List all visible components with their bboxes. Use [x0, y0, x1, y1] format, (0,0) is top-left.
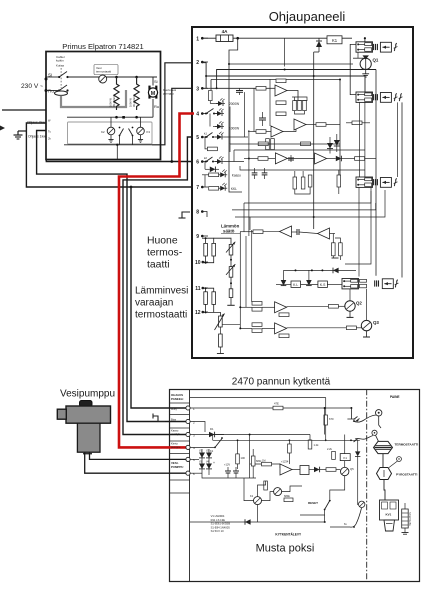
second crossing wire [355, 436, 373, 440]
connector bracket at boiler t2 [153, 416, 165, 422]
transistor Q3 [361, 320, 371, 330]
svg-text:D1: D1 [210, 427, 214, 431]
svg-text:Si: Si [154, 79, 158, 84]
wire to pyrostat [382, 454, 384, 468]
op-amp U5 (left) [280, 226, 292, 237]
wire to KL KS [301, 283, 318, 285]
LED t4 [214, 113, 217, 115]
control panel box frame [192, 27, 413, 358]
svg-text:k1: k1 [204, 132, 207, 136]
svg-text:V1 LM2904: V1 LM2904 [211, 514, 225, 518]
wire t4 down [209, 114, 211, 127]
logic box [300, 466, 309, 475]
LED t5 [213, 136, 217, 138]
wire fuse to relay1 [233, 37, 352, 39]
resistor row mid b [301, 142, 311, 146]
op-amp U9 [294, 119, 306, 130]
wire transistor down [330, 476, 345, 490]
svg-text:KKL: KKL [231, 187, 237, 191]
relay block 1 [356, 42, 373, 52]
wire switch drops [119, 136, 121, 145]
smoothing cap 1 [227, 467, 229, 471]
svg-text:11: 11 [195, 286, 201, 292]
wires drivers [262, 492, 274, 501]
svg-text:8: 8 [196, 210, 199, 216]
resistor U2 in [256, 130, 266, 134]
LED t7a [218, 170, 227, 178]
svg-text:Kutiaa: Kutiaa [56, 64, 64, 68]
wire t4 [190, 446, 215, 448]
smoothing cap 2 [235, 467, 237, 471]
wire t1 to fuse [202, 37, 216, 39]
transistor Q2 [345, 301, 355, 311]
resistor bank R12 [303, 101, 307, 111]
resistor t5 [207, 147, 217, 151]
gray return wire [61, 90, 126, 107]
boiler box frame [170, 390, 420, 582]
vert resistor mid col a [266, 139, 270, 150]
relay block 2 [356, 92, 373, 102]
connector bars 2 [374, 94, 378, 100]
wire U5 row [330, 233, 336, 235]
svg-text:Kaasu: Kaasu [232, 174, 241, 178]
svg-text:Ru: Ru [154, 104, 159, 109]
wire t1 bus [190, 407, 351, 409]
vert resistor mid bank b [301, 177, 305, 189]
wire relay2 to relay3 a [359, 102, 361, 177]
wire Q2 up [349, 289, 351, 301]
long vertical x402 [401, 102, 403, 277]
terminal strip [189, 389, 191, 582]
svg-text:1: 1 [196, 36, 199, 42]
reset switch [324, 509, 326, 511]
bridge out bus [202, 472, 256, 479]
wire heater top [404, 503, 406, 509]
connector bars 3 [374, 179, 378, 185]
wire output transistor up [344, 435, 346, 468]
water pump cap [80, 401, 93, 407]
LED t6 [213, 161, 217, 163]
svg-text:2: 2 [196, 60, 199, 66]
svg-text:TERMOSTAATTI: TERMOSTAATTI [395, 443, 419, 447]
ground stub bottom [219, 347, 221, 354]
terminal circles t1-t6 [186, 406, 190, 410]
resistor U7 in b [252, 308, 262, 312]
svg-text:7: 7 [196, 185, 199, 191]
wire mid drop a [269, 79, 271, 126]
svg-text:100: 100 [241, 456, 246, 460]
center vertical bus [249, 435, 251, 479]
svg-text:1000W: 1000W [229, 127, 239, 131]
wire pot to comparator row [222, 324, 240, 326]
heater resistor 2 [134, 77, 139, 110]
svg-text:Primus Elpatron 714821: Primus Elpatron 714821 [62, 42, 143, 51]
connector bars 1 [374, 44, 378, 50]
svg-text:K.L: K.L [293, 283, 298, 287]
op-amp U6 (left) [318, 228, 330, 239]
cap mid [259, 117, 266, 119]
resistor U7 fb [279, 313, 289, 317]
wire panel t3 drop to bus [172, 88, 191, 161]
water pump column [77, 423, 100, 452]
pot 2 [229, 267, 233, 278]
wire t6 to bridge [190, 472, 202, 474]
cap U5 [296, 229, 298, 235]
svg-text:varaajan: varaajan [135, 298, 173, 309]
svg-text:termos-: termos- [147, 248, 182, 259]
svg-text:K2: K2 [101, 130, 105, 134]
mains squiggle 2b [399, 93, 403, 101]
resistor U9 out [316, 123, 326, 127]
svg-text:3: 3 [196, 87, 199, 93]
switch K1 boiler [214, 447, 216, 449]
mesh wire mid c [234, 149, 365, 151]
svg-text:Kaasu: Kaasu [171, 429, 179, 433]
wire L phase top [46, 76, 59, 78]
wire Q3 up [366, 289, 368, 321]
wire C: panel t6 to Primus corner [46, 159, 191, 162]
wire E: Primus ohjaus2 to panel t7 line [26, 123, 131, 187]
svg-text:1M: 1M [262, 459, 265, 462]
ground chain [230, 298, 232, 306]
svg-text:12: 12 [195, 310, 201, 316]
vert resistor mid col b [271, 139, 275, 150]
op-amp V5 [280, 464, 292, 475]
wire ignition [330, 508, 362, 527]
mid bus y440 [213, 439, 360, 441]
LED t7b [218, 183, 227, 191]
mesh wires mid [230, 144, 340, 152]
wire top into relay1 [364, 38, 366, 42]
arrow box 3 [380, 178, 391, 188]
capacitor t3 [239, 88, 241, 90]
svg-text:S1-E84 1N4005: S1-E84 1N4005 [211, 525, 231, 529]
wire U4 [327, 158, 336, 160]
relay block 4 extra contacts [360, 279, 367, 282]
thermostat bulb hexagon [374, 441, 393, 453]
long vertical x340 [339, 79, 341, 176]
wire relay3 drop a [358, 188, 360, 277]
op-amp U3 [275, 153, 287, 164]
mains squiggle 3 [394, 178, 398, 186]
wire mid row [250, 464, 280, 468]
label box Vesi termostaatti [94, 65, 118, 75]
switch t4 [205, 113, 207, 115]
heater resistor right [402, 509, 409, 528]
svg-text:kytkin: kytkin [56, 59, 64, 63]
mains squiggle 2a [394, 93, 398, 101]
small terminal circle pyro [397, 457, 402, 462]
wire relay1 stub [357, 52, 359, 58]
switch t6 [205, 161, 207, 163]
node 230V L on Primus edge [45, 78, 48, 81]
crossing mark mid bus [354, 439, 358, 442]
wire relay3 drop b [345, 188, 371, 265]
resistor chain lower [229, 289, 233, 298]
vert resistor mid bank a [293, 177, 297, 189]
long vertical x313 [313, 52, 315, 229]
bus line 2 [206, 76, 365, 92]
wire D: Primus ohjaus1 to boiler t2 [37, 131, 186, 422]
svg-text:Musta poksi: Musta poksi [256, 543, 315, 555]
driver transistor 2 [254, 497, 262, 505]
wire t3 row to mid [210, 87, 256, 89]
svg-text:680E: 680E [284, 495, 290, 498]
svg-text:4A: 4A [222, 29, 229, 34]
op-amp U4 [315, 153, 327, 164]
wire t5 right [224, 136, 248, 138]
svg-text:230 V: 230 V [21, 83, 39, 90]
arrow box 1 [380, 42, 391, 52]
wire fuse junction drop [229, 38, 242, 192]
junction wire E on A [130, 186, 133, 189]
resistor t7b [209, 187, 219, 191]
diode K.S [306, 280, 312, 286]
t3 row resistor [202, 87, 210, 89]
driver transistor 1 [274, 488, 282, 496]
svg-text:Q5: Q5 [350, 467, 354, 471]
relay block 4 [342, 279, 359, 289]
wire N phase [46, 90, 59, 92]
mains squiggle 1 [394, 43, 398, 51]
svg-text:K1: K1 [210, 449, 214, 453]
resistor Q in [326, 468, 336, 472]
svg-text:Ohjaupaneeli: Ohjaupaneeli [269, 9, 346, 24]
diode above U4 [327, 143, 333, 149]
resistor mid2 [276, 112, 286, 116]
wire pump to boiler t6 [85, 452, 186, 473]
wire cap drop [244, 92, 246, 137]
svg-text:~: ~ [40, 84, 43, 90]
wire relay1 left link [350, 44, 356, 94]
wire gauge down [379, 416, 381, 428]
svg-text:5: 5 [196, 135, 199, 141]
cap pair b [262, 172, 268, 174]
diode bottom bus [245, 519, 251, 525]
resistor U8 fb [279, 334, 289, 338]
diode right [355, 451, 360, 456]
thermal cutout ellipse [55, 91, 68, 95]
svg-text:9: 9 [196, 234, 199, 240]
diode K.L [281, 280, 287, 286]
op-amp U7 [275, 302, 287, 313]
diode t6 [210, 167, 216, 173]
wire heater bottom bus [67, 116, 153, 118]
op-amp U8 [275, 323, 287, 334]
switch t5 [205, 136, 207, 138]
terminal 8 outside hook [182, 212, 190, 218]
junction t3 drop on wire C [170, 160, 173, 163]
wire bank top [292, 97, 307, 101]
resistor drop from bus [288, 444, 292, 453]
wiggle wire to gauge [350, 407, 352, 409]
ground heater [404, 528, 406, 533]
dash-dot separator [366, 389, 368, 582]
op-amp U1 [275, 85, 287, 96]
upper bus y397 [190, 397, 326, 399]
t3 row LED 2000W [209, 101, 211, 104]
fuse 4A [216, 35, 233, 42]
long vertical mid [248, 130, 250, 236]
wire U1 out [287, 91, 298, 101]
pot chain node 2 [230, 277, 232, 289]
resistor Q3 in [346, 326, 356, 330]
bus line 1 [217, 70, 376, 89]
svg-text:S1 5CV 10: S1 5CV 10 [211, 529, 225, 533]
relay K3 contact [132, 127, 134, 129]
vert resistor mid low [332, 243, 336, 256]
pot chain node 1 [230, 255, 232, 267]
wire mains N feed [2, 109, 46, 111]
box K.L [291, 281, 301, 287]
wire bank bottom [295, 111, 305, 114]
drop K1 transistor to bus [257, 505, 259, 522]
svg-text:Q3: Q3 [373, 320, 379, 325]
svg-text:termostaatti: termostaatti [135, 310, 187, 321]
wire U2 out [283, 120, 296, 132]
water pump body [66, 406, 111, 423]
svg-text:47E: 47E [274, 402, 279, 406]
svg-text:4Ohj.: 4Ohj. [171, 407, 177, 411]
bus line 4 [211, 79, 340, 81]
svg-text:Kierto: Kierto [171, 442, 178, 446]
svg-text:M: M [151, 91, 156, 97]
relay K3 coil [137, 127, 145, 135]
cap U3 [290, 155, 292, 162]
relay K2 contact [119, 127, 121, 129]
diode top [318, 38, 320, 41]
resistor R70 [325, 398, 327, 416]
wire t3 bus [190, 434, 224, 436]
diode U4 out [336, 156, 342, 162]
vert resistor mid low b [339, 243, 343, 256]
wires mid bank [294, 171, 296, 177]
resistor Q2 in [328, 305, 338, 309]
vert resistor mid bank d [337, 175, 341, 187]
svg-text:KV1: KV1 [386, 513, 392, 517]
wire U8 to Q3 [287, 327, 347, 329]
svg-text:10: 10 [195, 260, 201, 266]
motor M circle [148, 86, 150, 99]
wire B: panel t5 to boiler t3 [123, 137, 191, 435]
svg-text:Huone: Huone [147, 236, 178, 247]
resistor 1M [262, 462, 272, 466]
resistor U7 in [252, 302, 262, 306]
ignition transistor circle [359, 501, 365, 507]
wire pyrostat to KV1 [384, 480, 385, 501]
arrow box 2 [380, 93, 391, 103]
wire drop to K2 [110, 117, 112, 127]
svg-text:PAINE: PAINE [390, 395, 400, 399]
wire relay bottom bus [64, 144, 152, 146]
wires t11 t12 [202, 288, 214, 292]
box K.S [318, 281, 328, 287]
wire motor bottom [152, 99, 154, 117]
svg-text:1.2k: 1.2k [314, 443, 320, 447]
wire drop to K3 [140, 117, 142, 127]
resistor mid t3 [256, 87, 266, 91]
svg-text:2.2k: 2.2k [327, 447, 333, 451]
svg-text:Q1: Q1 [373, 58, 379, 63]
svg-text:k2: k2 [204, 156, 207, 160]
resistor 1.2k vert [308, 440, 312, 449]
wire t7a [202, 174, 209, 176]
wire mid drop b [253, 88, 255, 131]
svg-text:pumppu: pumppu [171, 446, 181, 449]
resistor below U1 [276, 101, 286, 105]
svg-text:venttiyli: venttiyli [171, 432, 180, 436]
wire top drop [284, 38, 286, 66]
svg-text:+: + [213, 461, 215, 465]
diode V7 [314, 467, 320, 473]
svg-text:pumppu: pumppu [163, 92, 174, 96]
svg-text:49,2 ohmia: 49,2 ohmia [112, 94, 116, 107]
connector bars 4 [375, 280, 379, 286]
wire relay2 to relay3 b [364, 102, 366, 177]
LED t4b [215, 121, 224, 129]
svg-text:Vesipumppu: Vesipumppu [60, 389, 115, 400]
ground symbol mains [14, 131, 23, 139]
heater resistor 1 [114, 77, 119, 110]
svg-text:4: 4 [196, 112, 199, 118]
ground K3 [140, 135, 142, 140]
diode mid right [334, 140, 340, 146]
resistor bank R10 [293, 101, 297, 111]
water pump nub [57, 409, 66, 419]
svg-text:2470 pannun kytkentä: 2470 pannun kytkentä [232, 377, 331, 388]
wire t6 right [224, 161, 244, 163]
wire t2 stub [190, 422, 205, 433]
svg-text:49,2 ohmia: 49,2 ohmia [132, 94, 136, 107]
resistor U8 in [252, 323, 262, 327]
svg-text:HEHKUTUS: HEHKUTUS [409, 512, 412, 526]
cap pair a [252, 172, 258, 174]
svg-text:taatti: taatti [147, 260, 170, 271]
drop reset to bus [324, 515, 326, 522]
svg-text:säätö: säätö [223, 229, 235, 234]
svg-text:Lämminvesi: Lämminvesi [135, 286, 188, 297]
resistor 47E [273, 406, 283, 410]
pump terminal tab [83, 452, 92, 455]
res 2.2k [332, 451, 336, 459]
wire ground to bundle C [18, 130, 26, 132]
node heater2 top [135, 76, 138, 79]
svg-text:K1: K1 [343, 456, 347, 460]
relay block 3 [356, 177, 373, 187]
ground K2 [110, 135, 112, 140]
pot 1 [229, 244, 233, 255]
bridge rectifier [201, 449, 203, 472]
svg-text:K.S: K.S [320, 283, 326, 287]
wire panel t2 to Primus pump relay [152, 63, 191, 145]
svg-text:Ru: Ru [48, 89, 54, 94]
long vertical x376 [375, 70, 377, 276]
svg-text:KYTKENTÄLEVY: KYTKENTÄLEVY [275, 533, 302, 537]
svg-text:2000W: 2000W [229, 102, 239, 106]
svg-text:PUMPPU: PUMPPU [171, 465, 183, 469]
wire A: panel t7 to boiler t1 [131, 187, 191, 408]
right vertical drop [357, 440, 359, 445]
svg-text:termostaatti: termostaatti [96, 70, 111, 74]
svg-text:PANEELI: PANEELI [171, 397, 184, 401]
valve plug [384, 520, 395, 531]
wire led row drop [229, 107, 231, 145]
svg-text:R11 LS 13E: R11 LS 13E [211, 518, 225, 522]
K1 coil box right [340, 454, 350, 461]
resistor bank R11 [298, 101, 302, 111]
resistor U3 in [258, 157, 268, 161]
junction dots on buses [284, 69, 286, 71]
